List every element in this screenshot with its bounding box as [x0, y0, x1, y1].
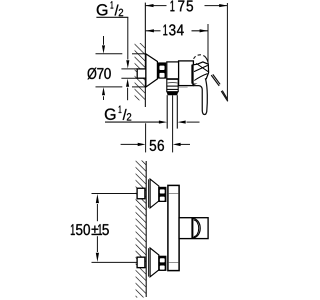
nut (side view) [157, 62, 166, 78]
dim 134 [146, 30, 161, 32]
up arrow to square bottom [127, 88, 129, 101]
extension line x=227.4 (175 right, lever tip) [226, 3, 228, 101]
dim 175 [145, 5, 166, 7]
outlet pipe [166, 95, 168, 128]
body right section (side view) [179, 61, 194, 86]
outlet collar [167, 79, 178, 91]
dim 56 [121, 143, 139, 145]
G1/2 top leader [96, 16, 128, 18]
upper union cone [150, 179, 159, 208]
G1/2 square extension lines (side) [121, 68, 137, 70]
lower union nut [158, 256, 166, 271]
lever grip (closed position, hanging down) [193, 78, 207, 114]
body plate (front view) [168, 185, 179, 270]
lower union cone [150, 248, 159, 277]
opposing arrow at pipe right edge [187, 121, 200, 123]
lower union back edge [148, 248, 150, 276]
lower union square [137, 257, 145, 268]
wall face line (front) [145, 161, 147, 297]
wall hatching (front view) [136, 161, 147, 298]
dim 150±15 [92, 193, 138, 195]
dim Ø70 [96, 53, 123, 55]
upper union back edge [148, 179, 150, 207]
body mid section (side view) [167, 62, 179, 79]
G 1/2 label top [97, 4, 107, 15]
handle dome hidden edge (dashed) [194, 55, 206, 59]
G1/2 bottom leader, arrow to outlet pipe [105, 121, 161, 123]
handle head [193, 62, 209, 84]
extension line x=208 (134 right) [207, 24, 209, 64]
lever [211, 75, 219, 86]
wall face line [144, 3, 146, 107]
upper union nut [158, 187, 166, 202]
wall hatching (side view) [135, 43, 146, 100]
escutcheon cone (side view) [146, 54, 158, 87]
G 1/2 label bottom [105, 109, 115, 120]
spout (front view) [179, 218, 208, 239]
outlet nipple (dark) [167, 92, 179, 96]
inlet square (side view) [137, 69, 146, 78]
upper union square [137, 188, 145, 199]
